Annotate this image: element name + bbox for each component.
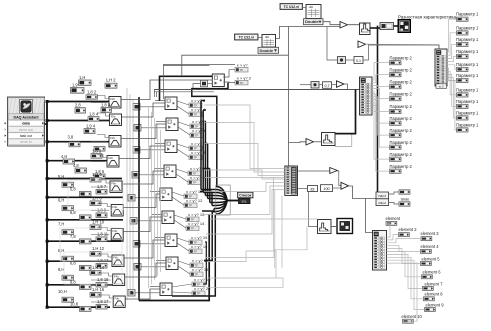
indicator element: [386, 216, 401, 225]
wire T7 branch down: [366, 199, 373, 233]
svg-text:Параметр 2: Параметр 2: [390, 79, 413, 84]
comparator x>y? block 8: [165, 234, 177, 247]
indicator Parametr1 8: [456, 99, 479, 109]
wire consts to filter 5: [91, 180, 110, 187]
wire cmp column left bus: [138, 97, 140, 301]
svg-text:3,8: 3,8: [68, 134, 74, 139]
svg-text:Double: Double: [305, 19, 319, 24]
wire consts to filter 4: [91, 155, 107, 162]
multiply block M2: [311, 82, 319, 89]
channel 5 constants: [58, 172, 107, 196]
wire grey v3: [132, 100, 134, 292]
channel 4 constants: [61, 149, 105, 179]
indicator Parametr1 2: [456, 25, 479, 35]
wire grey route 2: [204, 123, 285, 173]
wire grey route 16: [206, 190, 285, 235]
wire grey route 10: [208, 251, 246, 262]
wire left vertical bus: [46, 102, 48, 308]
svg-text:Filtr: Filtr: [110, 136, 115, 140]
svg-text:100: 100: [323, 187, 329, 191]
label Spisok: [238, 192, 254, 198]
wire consts to filter 7: [91, 228, 111, 235]
indicator Parametr1 9: [456, 110, 479, 120]
wire PGSL out hi: [389, 192, 400, 194]
wire index drop: [309, 192, 318, 227]
wire bool bundle v1: [200, 101, 202, 190]
indicator Parametr1 3: [456, 37, 479, 47]
wire U3 to element: [386, 223, 390, 237]
svg-text:Параметр 1: Параметр 1: [456, 110, 479, 115]
svg-text:Double: Double: [260, 48, 274, 53]
indicator Parametr1 7: [456, 87, 479, 97]
wire cmp1 vert: [162, 64, 164, 99]
build array B2: [285, 166, 298, 196]
triangle op T5: [306, 139, 314, 146]
svg-text:x > y? 2: x > y? 2: [237, 76, 252, 81]
svg-text:[0]: [0]: [311, 187, 315, 191]
boolean TF 3: [189, 103, 202, 108]
indicator Slide hi: [399, 190, 410, 194]
indicator Parametr1 1: [456, 12, 479, 22]
indicator Parametr2 4: [390, 91, 413, 100]
wire U2 to P1 7: [447, 71, 457, 95]
svg-text:5,8: 5,8: [70, 186, 76, 191]
wire U3 to element 9: [387, 260, 425, 309]
wire PGSL out lo: [389, 203, 400, 205]
wire bool bundle v7: [213, 209, 215, 212]
wire T1 to hist1: [348, 24, 360, 26]
svg-text:Параметр 1: Параметр 1: [456, 49, 479, 54]
wire U2 to P1 8: [447, 74, 457, 106]
wire U1 to P2 6: [372, 94, 390, 123]
wire grey v5: [151, 112, 153, 284]
svg-text:Список: Список: [239, 193, 252, 197]
boolean TF 20: [192, 291, 205, 296]
wire 07-T3: [332, 84, 337, 86]
indicator Parametr2 10: [390, 164, 413, 173]
wire 01 to T2: [363, 44, 369, 60]
svg-text:7,H: 7,H: [58, 222, 64, 227]
svg-text:5,H: 5,H: [58, 174, 64, 179]
indicator Parametr2 3: [390, 79, 413, 88]
comparator 2 const: [133, 104, 140, 111]
wire channel branch 6: [47, 196, 123, 198]
node junction 2: [46, 119, 49, 122]
wire grey route 9: [246, 251, 283, 288]
svg-text:Filtr: Filtr: [111, 114, 116, 118]
wire bottom loop: [139, 214, 209, 300]
svg-text:4,8: 4,8: [73, 163, 79, 168]
svg-text:element 3: element 3: [421, 231, 440, 236]
svg-text:task out: task out: [20, 134, 32, 138]
wire filter2 to cmp2: [122, 103, 166, 117]
svg-text:st.0: st.0: [439, 84, 444, 88]
wire to comparator 1: [160, 76, 213, 101]
svg-text:element 9: element 9: [426, 302, 445, 307]
wire U2 to P1 5: [447, 65, 457, 70]
indicator Parametr2 2: [390, 67, 413, 76]
wire grey v1: [126, 88, 128, 300]
wire waveform down: [377, 26, 379, 192]
histogram block H1: [360, 23, 371, 35]
wire grey route 6: [202, 186, 285, 215]
wire consts to filter 2: [91, 113, 110, 120]
filter VI F6: [111, 205, 123, 217]
svg-text:TF: TF: [195, 134, 199, 138]
wire loop frame c: [68, 180, 123, 210]
svg-text:Filtr: Filtr: [112, 205, 117, 209]
svg-text:Параметр 1: Параметр 1: [456, 73, 479, 78]
node junction 10: [46, 283, 49, 286]
comparator x>y? block 9: [166, 257, 178, 270]
wire U2 to P1 4: [447, 56, 457, 61]
wire cmp1 top input: [163, 63, 235, 65]
boolean TF 14: [186, 226, 199, 231]
node junction 11: [46, 306, 49, 309]
indicator element 10: [402, 314, 423, 323]
wire filter3 to cmp3: [121, 124, 166, 139]
svg-text:Параметр 1: Параметр 1: [456, 37, 479, 42]
indicator element 2: [399, 227, 418, 237]
triangle op T2: [358, 41, 366, 48]
node junction 4: [46, 159, 49, 162]
comparator x>y? block 4: [165, 140, 177, 153]
wire loop frame b: [64, 252, 122, 284]
wire bool bundle h7: [214, 208, 216, 210]
comparator 10 const: [128, 290, 135, 297]
wire cmp7 out: [174, 215, 186, 228]
subVI TC U12 (2): [262, 35, 276, 48]
svg-text:ПДСЗ: ПДСЗ: [378, 194, 386, 198]
filter VI F2: [110, 114, 122, 126]
wire channel branch 5: [47, 178, 122, 180]
wire U1 to P2 3: [372, 86, 390, 87]
wire cmp2 out: [177, 101, 189, 114]
svg-text:x > y? 16: x > y? 16: [191, 244, 208, 249]
wire bool bundle h3: [205, 195, 216, 197]
wire H3-XY: [331, 226, 337, 228]
svg-text:Параметр 2: Параметр 2: [390, 67, 413, 72]
boolean TF 13: [186, 217, 199, 222]
wire T7 out: [349, 186, 377, 199]
svg-text:ТС U12.vi: ТС U12.vi: [284, 5, 300, 9]
svg-text:Параметр 2: Параметр 2: [390, 116, 413, 121]
wire bool bundle h1: [201, 189, 216, 191]
wire T3 out: [344, 84, 348, 90]
wire U1 to P2 7: [372, 97, 390, 135]
wire cmp6 out: [172, 192, 184, 205]
svg-text:TF: TF: [240, 68, 244, 72]
wire label1-subvi: [303, 7, 307, 9]
boolean TF x>y? 2: [235, 80, 248, 85]
wire bottom loop 2: [172, 215, 215, 296]
svg-text:x > y? 10: x > y? 10: [190, 175, 207, 180]
svg-text:element 8: element 8: [425, 292, 444, 297]
indicator element 6: [422, 269, 442, 279]
wire comparator 5 inputs: [139, 169, 164, 175]
wire row8b rise: [203, 242, 206, 284]
wire tf feed 2: [203, 109, 206, 111]
svg-text:Параметр 2: Параметр 2: [390, 164, 413, 169]
wire y65: [163, 65, 210, 67]
wire grey route 17: [206, 250, 274, 258]
comparator 3 const: [134, 125, 141, 132]
wire bool bundle v6: [211, 192, 213, 206]
indicator Parametr2 6: [390, 116, 413, 125]
wire U1 to P2 9: [372, 102, 390, 159]
wire row9 rise: [204, 212, 216, 261]
svg-text:element 5: element 5: [422, 256, 441, 261]
wire U3 to element 4: [387, 246, 421, 252]
svg-text:Filtr: Filtr: [114, 296, 119, 300]
comparator x>y? block 1: [212, 74, 224, 87]
wire hist2 loop: [335, 135, 352, 147]
wire tf feed 7: [202, 210, 214, 212]
wire U3 to element 10: [387, 263, 418, 321]
wire filter10 to cmp10: [125, 289, 160, 299]
filter VI F5: [110, 181, 122, 193]
wire comparator 10 inputs: [135, 287, 160, 293]
comparator x>y? block 6: [160, 188, 172, 201]
label TC U12.vi (2): [235, 34, 259, 40]
boolean TF x>y?: [235, 67, 248, 72]
wire fan to list: [227, 200, 238, 202]
svg-text:SGL: SGL: [241, 199, 247, 203]
wire grey route 8: [210, 218, 318, 220]
indicator Parametr2 1: [390, 55, 413, 64]
svg-text:Filtr: Filtr: [108, 156, 113, 160]
svg-text:x > y? 15: x > y? 15: [191, 235, 208, 240]
wire bool bundle v2: [202, 110, 204, 193]
indicator element 9: [425, 302, 445, 311]
boolean TF 11: [184, 194, 197, 199]
wire tf feed 5: [204, 168, 210, 170]
indicator element 7: [423, 281, 444, 290]
comparator x>y? block 10: [160, 283, 172, 296]
svg-text:6,H: 6,H: [58, 198, 64, 203]
indicator Parametr1 10: [456, 122, 479, 132]
wire comparator 6 inputs: [135, 192, 160, 198]
subVI PGSL: [376, 192, 389, 206]
wire tf feed 1: [201, 100, 205, 102]
svg-text:1,H 6: 1,H 6: [92, 172, 103, 177]
comparator 5 const: [132, 172, 139, 179]
const 0,1: [354, 57, 363, 64]
svg-text:1,H 14: 1,H 14: [92, 265, 105, 270]
svg-text:Filtr: Filtr: [111, 181, 116, 185]
unbundle cluster U2: [435, 49, 447, 86]
svg-text:1,9 4: 1,9 4: [86, 123, 96, 128]
wire long y55: [182, 55, 289, 76]
indicator Spisok terminal: [239, 198, 251, 203]
wire grey route 5: [204, 183, 285, 192]
wire cmp4 out: [177, 144, 189, 157]
svg-text:Параметр 2: Параметр 2: [390, 55, 413, 60]
wire grey route 11: [208, 277, 276, 279]
node junction 9: [46, 260, 49, 263]
comparator x>y? block 7: [162, 211, 174, 224]
channel 10 constants: [58, 287, 109, 311]
triangle op T7: [341, 182, 349, 189]
svg-text:1,H 10: 1,H 10: [92, 220, 105, 225]
node junction 1: [46, 100, 49, 103]
wire T2 out: [366, 44, 440, 49]
wire U1 to P2 1: [372, 63, 390, 80]
wire cmp8 out: [177, 238, 189, 251]
wire M2-07: [319, 84, 323, 86]
converter block: [380, 23, 394, 30]
node junction 5: [46, 177, 49, 180]
svg-text:Параметр 1: Параметр 1: [456, 99, 479, 104]
boolean TF 17: [190, 263, 203, 268]
svg-text:TF: TF: [189, 204, 193, 208]
filter VI F9: [113, 274, 125, 286]
svg-text:Параметр 2: Параметр 2: [390, 128, 413, 133]
index box [0]: [308, 186, 318, 192]
wire grey route 14: [274, 190, 276, 268]
wire waveform y89: [154, 89, 360, 91]
svg-text:Filtr: Filtr: [110, 97, 115, 101]
wire bool bundle v3: [204, 122, 206, 196]
wire loop frame a: [60, 228, 122, 261]
wire U3 to element 5: [387, 249, 421, 264]
wire into M1: [327, 27, 338, 61]
boolean TF 7: [189, 146, 202, 151]
filter VI F1: [109, 97, 121, 109]
svg-text:Параметр 1: Параметр 1: [456, 122, 479, 127]
comparator 6 const: [128, 195, 135, 202]
Double selector 2: [258, 47, 279, 53]
boolean TF 10: [188, 180, 201, 185]
channel 3 constants: [68, 111, 106, 151]
boolean TF 4: [189, 112, 202, 117]
channel 2 constants: [75, 102, 112, 133]
triangle op T1: [340, 22, 348, 29]
indicator Parametr2 5: [390, 104, 413, 113]
wire U3 to element 6: [387, 252, 422, 277]
svg-text:TF: TF: [194, 156, 198, 160]
svg-text:1,H 8: 1,H 8: [92, 196, 103, 201]
indicator XY graph: [337, 219, 353, 234]
boolean TF 5: [190, 124, 203, 129]
svg-text:TF: TF: [195, 273, 199, 277]
const 0,7: [323, 82, 332, 89]
wire comparator 2 inputs: [140, 101, 165, 107]
wire grey v7: [157, 124, 159, 276]
wire grey route 15: [281, 196, 283, 268]
svg-text:element 10: element 10: [402, 314, 423, 319]
wire channel branch 2: [47, 120, 109, 122]
build array B2 right col: [291, 167, 296, 194]
wire U3 to element 3: [387, 239, 422, 243]
svg-text:Filtr: Filtr: [113, 255, 118, 259]
wire bool bundle h6: [212, 205, 216, 207]
triangle op T6: [330, 168, 338, 174]
wire M1-01: [346, 59, 355, 61]
wire filter7 to cmp7: [123, 217, 162, 232]
svg-text:element 2: element 2: [399, 227, 418, 232]
indicator Parametr1 5: [456, 62, 479, 72]
wire filter1 to cmp1: [121, 80, 212, 100]
boolean TF 15: [189, 240, 202, 245]
comparator 9 const: [134, 264, 141, 271]
wire U2 to P1 3: [447, 44, 457, 58]
indicator element 4: [421, 244, 440, 254]
filter VI F7: [111, 229, 123, 241]
wire consts to filter 1: [91, 96, 109, 103]
svg-text:x > y?: x > y?: [237, 63, 249, 68]
svg-text:1,9: 1,9: [72, 82, 78, 87]
node fan merge: [216, 187, 227, 215]
wire U3 to element 8: [387, 257, 424, 299]
channel 8 constants: [58, 246, 109, 270]
indicator Parametr2 7: [390, 128, 413, 137]
wire into M2: [300, 84, 311, 86]
wire channel branch 8: [47, 240, 124, 242]
comparator x>y? block 5: [164, 165, 176, 178]
wire U2 drop: [438, 45, 440, 49]
boolean TF 16: [189, 249, 202, 254]
svg-text:7,8: 7,8: [70, 234, 76, 239]
filter VI F10: [113, 296, 125, 308]
svg-text:element: element: [386, 216, 401, 221]
svg-text:TF: TF: [191, 227, 195, 231]
comparator x>y? block 3: [166, 118, 178, 131]
wire y89 stub a: [154, 90, 156, 98]
wire U2 to P1 1: [447, 19, 457, 52]
wire U3 to element 2: [387, 235, 399, 240]
wire consts to filter 6: [91, 204, 111, 211]
svg-text:TF: TF: [193, 181, 197, 185]
wire channel branch 11: [47, 306, 110, 308]
filter VI F8: [112, 255, 124, 267]
svg-text:Параметр 1: Параметр 1: [456, 25, 479, 30]
wire filter8 to cmp8: [124, 240, 165, 258]
svg-text:TF: TF: [194, 113, 198, 117]
wire data output to bus: [45, 123, 48, 125]
wire U1 to P2 4: [372, 88, 390, 98]
wire cmp9 out: [178, 261, 190, 274]
wire subvi1 out: [323, 22, 340, 25]
svg-text:6,8: 6,8: [70, 210, 76, 215]
unbundle cluster U1: [360, 77, 373, 115]
channel 1 constants: [71, 75, 118, 99]
indicator Parametr2 8: [390, 140, 413, 149]
svg-text:9,H: 9,H: [58, 267, 64, 272]
svg-text:Параметр 1: Параметр 1: [456, 62, 479, 67]
wire bool bundle h5: [210, 202, 216, 204]
wire U3 to element 7: [387, 254, 423, 288]
Double selector 1: [304, 19, 324, 25]
histogram block H3: [318, 220, 332, 234]
filter VI F4: [107, 156, 119, 168]
svg-text:МЕnd: МЕnd: [379, 201, 387, 205]
svg-text:x > y? 12: x > y? 12: [186, 198, 203, 203]
wire bool bundle v5: [209, 169, 211, 203]
const 100: [321, 185, 333, 192]
indicator element 5: [421, 256, 441, 265]
wire U1 to P2 5: [372, 91, 390, 111]
wire channel branch 9: [47, 260, 124, 262]
svg-text:1,8 2: 1,8 2: [87, 90, 97, 95]
indicator Parametr2 9: [390, 152, 413, 161]
wire grey route 4: [204, 170, 285, 179]
wire U1 to P2 10: [372, 105, 390, 171]
wire U2 to P1 10: [447, 81, 457, 130]
svg-text:10,H: 10,H: [58, 289, 67, 294]
indicator element 8: [424, 292, 444, 301]
wire grey v8: [160, 130, 162, 272]
